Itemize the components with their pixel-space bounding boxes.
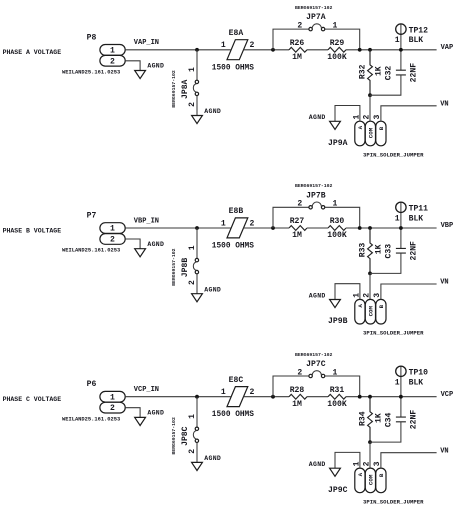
- svg-text:1500 OHMS: 1500 OHMS: [212, 64, 254, 72]
- wire to net VBP: [346, 227, 437, 229]
- svg-text:2: 2: [297, 21, 302, 30]
- ferrite bead E8B 1500 OHMS: [212, 207, 255, 250]
- svg-text:1M: 1M: [292, 400, 302, 409]
- wire to JP8A: [196, 50, 198, 80]
- svg-text:1: 1: [110, 46, 115, 55]
- svg-text:PHASE B VOLTAGE: PHASE B VOLTAGE: [3, 227, 62, 234]
- svg-text:P6: P6: [87, 380, 97, 389]
- test point TP10: [395, 366, 428, 397]
- jumper JP8B: [171, 245, 198, 286]
- resistor R33 1K: [358, 228, 383, 273]
- svg-text:BERG69157-102: BERG69157-102: [295, 352, 333, 358]
- svg-text:JP7A: JP7A: [306, 13, 326, 22]
- wire JP8B to AGND: [196, 274, 198, 294]
- svg-text:TP10: TP10: [409, 369, 429, 378]
- resistor R29 100K: [327, 39, 347, 62]
- svg-text:2: 2: [188, 449, 197, 454]
- node (bead input junction): [195, 226, 199, 230]
- connector P8: [62, 33, 125, 75]
- node (bead input junction): [195, 395, 199, 399]
- svg-text:C33: C33: [385, 244, 394, 259]
- svg-text:VAP: VAP: [441, 44, 454, 52]
- svg-text:BLK: BLK: [409, 378, 424, 387]
- wire loop left riser: [273, 207, 309, 228]
- svg-text:WEILAND25.161.0253: WEILAND25.161.0253: [62, 69, 120, 75]
- svg-text:A: A: [357, 472, 364, 476]
- svg-text:COM: COM: [368, 127, 375, 138]
- svg-text:1: 1: [221, 388, 226, 397]
- svg-text:BLK: BLK: [409, 214, 424, 223]
- svg-text:COM: COM: [368, 305, 375, 316]
- wire loop left riser: [273, 29, 309, 50]
- wire pin2 to AGND: [125, 61, 140, 71]
- svg-text:22NF: 22NF: [409, 241, 418, 261]
- svg-text:R28: R28: [290, 386, 305, 395]
- jumper JP7B: [295, 183, 337, 209]
- jumper JP7C: [295, 352, 337, 378]
- node (R/C bottom junction): [368, 272, 372, 276]
- wire pin 3 to net VN: [381, 106, 437, 121]
- svg-text:1: 1: [188, 245, 197, 250]
- svg-text:AGND: AGND: [147, 410, 164, 417]
- svg-text:3PIN_SOLDER_JUMPER: 3PIN_SOLDER_JUMPER: [363, 498, 424, 505]
- svg-text:R31: R31: [330, 386, 345, 395]
- svg-text:1: 1: [221, 41, 226, 50]
- wire R-R: [307, 396, 328, 398]
- svg-text:2: 2: [249, 41, 254, 50]
- test point TP12: [395, 24, 428, 50]
- svg-text:22NF: 22NF: [409, 63, 418, 83]
- svg-text:R29: R29: [330, 39, 345, 48]
- jumper JP8A: [171, 67, 198, 108]
- node (RC branch): [368, 226, 372, 230]
- node (test point): [399, 226, 403, 230]
- svg-text:3PIN_SOLDER_JUMPER: 3PIN_SOLDER_JUMPER: [363, 152, 424, 159]
- resistor R30 100K: [327, 217, 347, 240]
- node (R/C bottom junction): [368, 93, 372, 97]
- resistor R26 1M: [289, 39, 307, 62]
- resistor R32 1K: [358, 50, 383, 95]
- wire junction to COM pin: [369, 273, 371, 299]
- svg-text:1: 1: [395, 36, 400, 45]
- svg-text:VCP_IN: VCP_IN: [134, 386, 159, 394]
- wire capacitor bottom: [370, 253, 401, 273]
- svg-text:VN: VN: [440, 279, 448, 287]
- wire bead to node: [244, 227, 289, 229]
- svg-text:1: 1: [110, 393, 115, 402]
- svg-text:B: B: [378, 126, 385, 130]
- svg-text:AGND: AGND: [309, 461, 326, 468]
- svg-text:TP11: TP11: [409, 205, 429, 214]
- svg-text:AGND: AGND: [204, 108, 221, 115]
- svg-text:2: 2: [188, 102, 197, 107]
- svg-text:B: B: [378, 473, 385, 477]
- ground AGND (JP8C): [192, 455, 222, 470]
- svg-text:AGND: AGND: [309, 114, 326, 121]
- node (bead input junction): [195, 48, 199, 52]
- svg-text:100K: 100K: [327, 53, 347, 62]
- connector P7: [62, 212, 125, 254]
- wire AGND to pin 1: [335, 452, 360, 468]
- wire bead to node: [244, 49, 289, 51]
- capacitor C33 22NF: [385, 228, 419, 261]
- node (loop right): [358, 226, 362, 230]
- svg-text:2: 2: [297, 200, 302, 209]
- svg-text:100K: 100K: [327, 231, 347, 240]
- svg-text:JP9A: JP9A: [328, 139, 348, 148]
- wire to JP8B: [196, 228, 198, 258]
- svg-text:2: 2: [110, 236, 115, 245]
- svg-text:BERG69157-102: BERG69157-102: [295, 5, 333, 11]
- svg-text:1: 1: [110, 225, 115, 234]
- wire pin 3 to net VN: [381, 453, 437, 468]
- svg-text:COM: COM: [368, 474, 375, 485]
- svg-text:JP8B: JP8B: [181, 258, 190, 278]
- wire VCP_IN: [125, 396, 230, 398]
- ground AGND (JP8B): [192, 286, 222, 301]
- ground AGND (connector): [135, 410, 165, 426]
- svg-text:PHASE A VOLTAGE: PHASE A VOLTAGE: [3, 49, 62, 56]
- svg-text:JP9C: JP9C: [328, 486, 348, 495]
- wire junction to COM pin: [369, 95, 371, 121]
- svg-text:JP8A: JP8A: [181, 79, 190, 99]
- svg-text:VBP: VBP: [441, 222, 454, 230]
- svg-text:P8: P8: [87, 33, 97, 42]
- svg-text:PHASE C VOLTAGE: PHASE C VOLTAGE: [3, 396, 62, 403]
- svg-text:WEILAND25.161.0253: WEILAND25.161.0253: [62, 248, 120, 254]
- svg-text:2: 2: [297, 368, 302, 377]
- svg-text:R27: R27: [290, 217, 305, 226]
- wire junction to COM pin: [369, 442, 371, 468]
- svg-text:AGND: AGND: [204, 455, 221, 462]
- wire VBP_IN: [125, 227, 230, 229]
- svg-text:100K: 100K: [327, 400, 347, 409]
- svg-text:AGND: AGND: [309, 292, 326, 299]
- wire pin2 to AGND: [125, 239, 140, 249]
- svg-text:AGND: AGND: [147, 241, 164, 248]
- svg-text:R26: R26: [290, 39, 305, 48]
- jumper JP8C: [171, 414, 198, 455]
- wire capacitor bottom: [370, 75, 401, 95]
- svg-text:R32: R32: [358, 64, 367, 79]
- svg-text:2: 2: [249, 388, 254, 397]
- capacitor C32 22NF: [385, 50, 419, 83]
- svg-text:22NF: 22NF: [409, 410, 418, 430]
- svg-text:BERG69157-102: BERG69157-102: [295, 183, 333, 189]
- svg-text:1: 1: [395, 378, 400, 387]
- svg-text:BLK: BLK: [409, 36, 424, 45]
- svg-text:VN: VN: [440, 447, 448, 455]
- svg-text:A: A: [357, 125, 364, 129]
- svg-text:BERG69157-102: BERG69157-102: [171, 248, 177, 286]
- wire JP8A to AGND: [196, 96, 198, 116]
- 3-pin solder jumper JP9C: [328, 461, 424, 505]
- svg-text:1K: 1K: [374, 66, 383, 76]
- svg-text:TP12: TP12: [409, 26, 429, 35]
- wire bead to node: [244, 396, 289, 398]
- wire to net VCP: [346, 396, 437, 398]
- ground AGND (JP9C): [309, 461, 341, 476]
- svg-text:C32: C32: [385, 66, 394, 81]
- node (loop right): [358, 48, 362, 52]
- svg-text:1M: 1M: [292, 231, 302, 240]
- svg-text:2: 2: [110, 57, 115, 66]
- svg-text:C34: C34: [385, 412, 394, 427]
- ground AGND (JP8A): [192, 108, 222, 123]
- capacitor C34 22NF: [385, 397, 419, 430]
- resistor R28 1M: [289, 386, 307, 409]
- svg-text:E8C: E8C: [229, 376, 244, 385]
- ferrite bead E8C 1500 OHMS: [212, 376, 255, 419]
- svg-text:2: 2: [188, 280, 197, 285]
- resistor R31 100K: [327, 386, 347, 409]
- svg-text:VAP_IN: VAP_IN: [134, 39, 159, 47]
- wire AGND to pin 1: [335, 106, 360, 122]
- resistor R27 1M: [289, 217, 307, 240]
- node (test point): [399, 395, 403, 399]
- node (R/C bottom junction): [368, 440, 372, 444]
- wire pin2 to AGND: [125, 408, 140, 418]
- svg-text:2: 2: [249, 219, 254, 228]
- svg-text:WEILAND25.161.0253: WEILAND25.161.0253: [62, 416, 120, 422]
- 3-pin solder jumper JP9A: [328, 115, 424, 159]
- wire JP8C to AGND: [196, 443, 198, 463]
- ground AGND (JP9B): [309, 292, 341, 307]
- svg-text:1500 OHMS: 1500 OHMS: [212, 411, 254, 419]
- svg-text:AGND: AGND: [204, 286, 221, 293]
- wire pin 3 to net VN: [381, 284, 437, 299]
- wire loop right riser: [325, 376, 360, 397]
- ground AGND (JP9A): [309, 114, 341, 129]
- svg-text:BERG69157-102: BERG69157-102: [171, 417, 177, 455]
- wire R-R: [307, 49, 328, 51]
- svg-text:2: 2: [110, 404, 115, 413]
- svg-text:1: 1: [188, 414, 197, 419]
- wire to JP8C: [196, 397, 198, 427]
- node (loop left): [271, 48, 275, 52]
- svg-text:JP8C: JP8C: [181, 426, 190, 446]
- svg-text:JP7C: JP7C: [306, 360, 326, 369]
- wire R-R: [307, 227, 328, 229]
- wire capacitor bottom: [370, 422, 401, 442]
- node (loop left): [271, 226, 275, 230]
- svg-text:E8B: E8B: [229, 207, 244, 216]
- wire loop left riser: [273, 376, 309, 397]
- svg-text:1500 OHMS: 1500 OHMS: [212, 243, 254, 251]
- svg-text:1: 1: [395, 214, 400, 223]
- svg-text:1: 1: [188, 67, 197, 72]
- svg-text:VBP_IN: VBP_IN: [134, 217, 159, 225]
- wire to net VAP: [346, 49, 437, 51]
- node (loop right): [358, 395, 362, 399]
- svg-text:2: 2: [363, 115, 372, 120]
- svg-text:A: A: [357, 304, 364, 308]
- wire VAP_IN: [125, 49, 230, 51]
- jumper JP7A: [295, 5, 337, 31]
- wire AGND to pin 1: [335, 284, 360, 300]
- test point TP11: [395, 202, 428, 228]
- wire loop right riser: [325, 29, 360, 50]
- 3-pin solder jumper JP9B: [328, 293, 424, 337]
- wire loop right riser: [325, 207, 360, 228]
- svg-text:P7: P7: [87, 212, 97, 221]
- svg-text:VCP: VCP: [441, 391, 454, 399]
- node (RC branch): [368, 48, 372, 52]
- node (RC branch): [368, 395, 372, 399]
- svg-text:R33: R33: [358, 243, 367, 258]
- node (loop left): [271, 395, 275, 399]
- svg-text:2: 2: [363, 461, 372, 466]
- svg-text:R34: R34: [358, 411, 367, 426]
- svg-text:1: 1: [221, 219, 226, 228]
- ground AGND (connector): [135, 241, 165, 257]
- connector P6: [62, 380, 125, 422]
- svg-text:R30: R30: [330, 217, 345, 226]
- svg-text:B: B: [378, 304, 385, 308]
- svg-text:E8A: E8A: [229, 29, 244, 38]
- ground AGND (connector): [135, 63, 165, 79]
- node (test point): [399, 48, 403, 52]
- ferrite bead E8A 1500 OHMS: [212, 29, 255, 72]
- svg-text:BERG69157-102: BERG69157-102: [171, 70, 177, 108]
- svg-text:3PIN_SOLDER_JUMPER: 3PIN_SOLDER_JUMPER: [363, 330, 424, 337]
- svg-text:AGND: AGND: [147, 63, 164, 70]
- svg-text:JP7B: JP7B: [306, 191, 326, 200]
- svg-text:1K: 1K: [374, 413, 383, 423]
- svg-text:1K: 1K: [374, 244, 383, 254]
- svg-text:1M: 1M: [292, 53, 302, 62]
- svg-text:JP9B: JP9B: [328, 317, 348, 326]
- svg-text:2: 2: [363, 293, 372, 298]
- svg-text:VN: VN: [440, 100, 448, 108]
- resistor R34 1K: [358, 397, 383, 442]
